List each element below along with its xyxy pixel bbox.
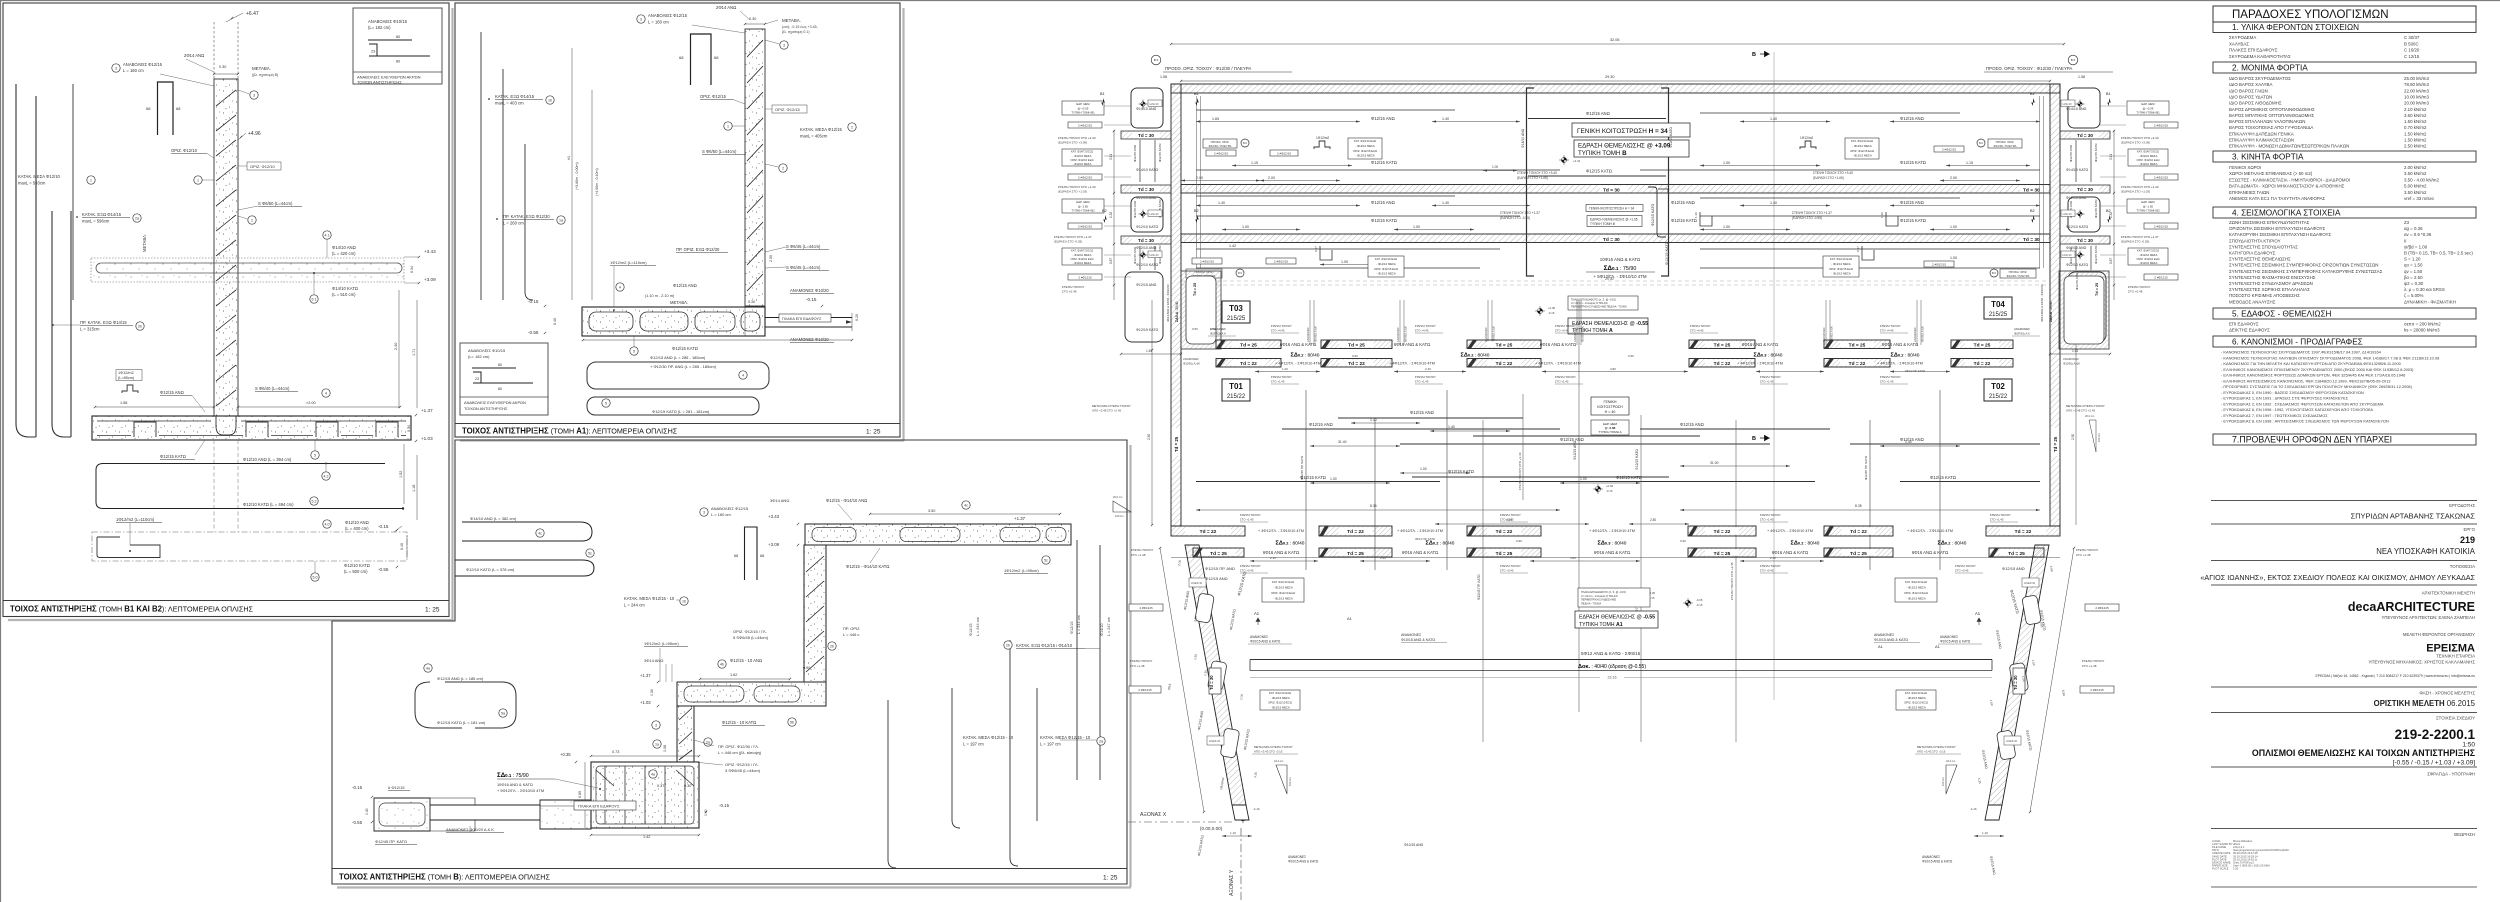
svg-text:ΣΤΟ +4.45: ΣΤΟ +4.45 [1555,329,1569,333]
svg-text:4c: 4c [964,503,968,507]
svg-text:ΚΑΤ. Φ12/10 ΕΞΩ: ΚΑΤ. Φ12/10 ΕΞΩ [1830,257,1852,261]
svg-text:-4-16: -4-16 [1970,807,1977,811]
dims under bottom rows [1250,560,1318,562]
svg-text:0.87: 0.87 [2109,258,2113,264]
svg-text:L = 446 c: L = 446 c [843,632,859,637]
right diagonal wall [1988,545,2049,805]
svg-text:1Φ12/m2 (L=110cm): 1Φ12/m2 (L=110cm) [610,260,647,265]
svg-text:1.20: 1.20 [1282,367,1288,371]
left rebar U-bars [16,84,36,437]
section 4 seismic data [2213,207,2476,218]
svg-text:ΕΡΕΙΣΜΑ | Νάξου 16, 14562 -: ΕΡΕΙΣΜΑ | Νάξου 16, 14562 - Κηφισιά | Τ … [2315,674,2475,678]
svg-text:ΣΤΕΨΗ ΤΟΙΧΟΥ: ΣΤΕΨΗ ΤΟΙΧΟΥ [1555,324,1576,328]
panel drop shadow bottom [8,619,453,621]
svg-text:Td = 25: Td = 25 [2095,283,2099,296]
svg-text:+1.03: +1.03 [421,436,433,441]
svg-text:ΣΥΝΤΕΛΕΣΤΗΣ ΣΕΙΣΜΙΚΗΣ ΣΥΜΠΕΡΙΦ: ΣΥΝΤΕΛΕΣΤΗΣ ΣΕΙΣΜΙΚΗΣ ΣΥΜΠΕΡΙΦΟΡΑΣ ΟΡΙΖΟ… [2229,263,2378,268]
centre slab note box lower [1578,588,1650,607]
svg-text:ΕΔΡΑΣΗ ΘΕΜΕΛΙΩΣΗΣ @ -0.55: ΕΔΡΑΣΗ ΘΕΜΕΛΙΩΣΗΣ @ -0.55 [1572,321,1648,327]
svg-text:ΥΠΕΥΘΥΝΟΣ ΜΗΧΑΝΙΚΟΣ: ΧΡΗΣΤΟΣ Κ: ΥΠΕΥΘΥΝΟΣ ΜΗΧΑΝΙΚΟΣ: ΧΡΗΣΤΟΣ ΚΑΚΛΑΜΑΝΗΣ [2368,660,2475,665]
svg-text:Td = 22: Td = 22 [1849,361,1866,367]
svg-text:(L = 500 cm): (L = 500 cm) [344,569,368,574]
svg-text:(L = 400 cm): (L = 400 cm) [345,526,369,531]
interior long verticals [1482,420,1484,742]
svg-text:1.00: 1.00 [1580,477,1587,481]
svg-text:(L = 510 cm): (L = 510 cm) [332,292,356,297]
svg-text:20.0 cm: 20.0 cm [1113,495,1122,499]
svg-text:B.6: B.6 [1992,271,1996,275]
svg-text:4.0: 4.0 [325,522,330,526]
svg-text:- Φ12/10 ΜΕΣΑ: - Φ12/10 ΜΕΣΑ [2139,154,2158,158]
left diagonal dims and labels [1160,548,1204,812]
svg-text:+3.09: +3.09 [424,277,436,282]
Td25 rotated labels on wall bands [1172,428,1181,456]
svg-text:+1.03: +1.03 [640,700,651,705]
svg-text:ΑΝΑΜΟΝΕΣ Φ10/20: ΑΝΑΜΟΝΕΣ Φ10/20 [790,337,829,342]
svg-text:(0.00,0.00): (0.00,0.00) [1200,826,1223,831]
svg-text:20.00 kN/m3: 20.00 kN/m3 [2404,101,2429,106]
svg-text:ΑΝΑΜΟΝΕΣ: ΑΝΑΜΟΝΕΣ [1306,327,1310,342]
svg-text:2.80: 2.80 [1650,518,1656,522]
svg-text:ΟΡΙΖ. Φ12/10 ΕΞΩ: ΟΡΙΖ. Φ12/10 ΕΞΩ [1268,701,1292,705]
svg-text:8.35: 8.35 [1370,504,1377,508]
svg-text:Φ12/15 ΚΑΤΩ: Φ12/15 ΚΑΤΩ [2094,143,2098,162]
svg-text:- Φ12/10 ΜΕΣΑ: - Φ12/10 ΜΕΣΑ [1376,262,1396,266]
svg-text:ΙΔΙΟ ΒΑΡΟΣ ΧΑΛΥΒΑ: ΙΔΙΟ ΒΑΡΟΣ ΧΑΛΥΒΑ [2229,82,2272,87]
svg-text:B.6: B.6 [1154,58,1159,62]
svg-text:ΣΤΕΨΗ ΤΟΙΧΟΥ: ΣΤΕΨΗ ΤΟΙΧΟΥ [1555,375,1576,379]
svg-text:ΚΑΤΑΚ. ΜΕΣΑ Φ12/15 - 10: ΚΑΤΑΚ. ΜΕΣΑ Φ12/15 - 10 [624,596,675,601]
svg-text:6Φ16 ΑΝΩ & ΚΑΤΩ: 6Φ16 ΑΝΩ & ΚΑΤΩ [1540,342,1576,347]
svg-text:2.40: 2.40 [1425,367,1431,371]
svg-text:ΗΛΕ.30: ΗΛΕ.30 [2063,102,2072,106]
svg-text:- Φ12/15 ΜΕΣΑ: - Φ12/15 ΜΕΣΑ [1273,585,1293,589]
svg-text:ΣΥΝΤΕΛΕΣΤΗΣ ΦΑΣΜΑΤΙΚΗΣ ΕΝΙΣΧΥΣ: ΣΥΝΤΕΛΕΣΤΗΣ ΦΑΣΜΑΤΙΚΗΣ ΕΝΙΣΧΥΣΗΣ [2229,275,2316,280]
svg-text:ΠΕΔΙΛΑ - ΤΟΙΧΙΑ: ΠΕΔΙΛΑ - ΤΟΙΧΙΑ [1581,601,1601,605]
svg-text:ks = 20000 kN/m3: ks = 20000 kN/m3 [2404,328,2440,333]
section 3 live loads [2213,151,2476,162]
plan left wall band [1171,84,1181,526]
svg-text:Td = 22: Td = 22 [1348,361,1365,367]
svg-text:ΕΔΡ. ΘΕΜ: ΕΔΡ. ΘΕΜ [2141,102,2155,106]
svg-text:S Φ6/50 (L=44cm): S Φ6/50 (L=44cm) [702,149,737,154]
svg-text:2.00: 2.00 [1268,176,1275,180]
svg-text:-0.15: -0.15 [1696,603,1703,607]
svg-text:- Φ12/15 ΜΕΣΑ: - Φ12/15 ΜΕΣΑ [1273,597,1293,601]
label Φ12/15 ΑΝΩ + ΜΕΤΑΒΛ [616,283,624,291]
svg-text:ΣΤΕΨΗ ΤΟΙΧΟΥ: ΣΤΕΨΗ ΤΟΙΧΟΥ [1131,548,1153,552]
svg-text:2b: 2b [138,324,142,328]
svg-text:80: 80 [396,35,400,39]
svg-text:6Φ16 ΑΝΩ & ΚΑΤΩ: 6Φ16 ΑΝΩ & ΚΑΤΩ [1394,342,1430,347]
svg-text:ΚΑΤΑΚ. ΕΞΩ Φ14/15: ΚΑΤΑΚ. ΕΞΩ Φ14/15 [495,94,535,99]
svg-text:S Φ6/40 (L=44cm): S Φ6/40 (L=44cm) [255,386,290,391]
svg-text:ΒΑΡΟΣ ΜΠΑΤΙΚΗΣ ΟΠΤΟΠΛΙΝΘΟΔΟΜΗΣ: ΒΑΡΟΣ ΜΠΑΤΙΚΗΣ ΟΠΤΟΠΛΙΝΘΟΔΟΜΗΣ [2229,113,2314,118]
title block bottom border [2211,886,2477,888]
svg-text:+4.96: +4.96 [248,131,261,137]
svg-text:T03: T03 [1229,304,1243,313]
svg-text:1. ΥΛΙΚΑ ΦΕΡΟΝΤΩΝ ΣΤΟΙΧΕΙΩΝ: 1. ΥΛΙΚΑ ΦΕΡΟΝΤΩΝ ΣΤΟΙΧΕΙΩΝ [2232,23,2359,32]
svg-text:80: 80 [396,60,400,64]
svg-text:αv = 0.9 *0.36: αv = 0.9 *0.36 [2404,232,2432,237]
panel frame [455,3,900,437]
svg-text:1.58: 1.58 [120,401,127,405]
svg-text:+3.09: +3.09 [768,542,780,547]
svg-text:(cm): -0.15 έως +3.45,: (cm): -0.15 έως +3.45, [782,25,818,29]
svg-text:Td = 30: Td = 30 [2077,187,2093,192]
svg-text:2: 2 [782,166,784,170]
svg-text:3.60 kN/m2: 3.60 kN/m2 [2404,113,2427,118]
svg-text:4c: 4c [538,531,542,535]
detail box anchors free ends [353,8,442,84]
svg-text:ΟΡΙΖ. Φ12/10 ΕΞΩ: ΟΡΙΖ. Φ12/10 ΕΞΩ [2137,158,2160,162]
svg-text:0.30: 0.30 [219,65,226,69]
panel B marker 3 right [780,41,788,49]
svg-text:- Φ12/15 ΜΕΣΑ: - Φ12/15 ΜΕΣΑ [1831,272,1851,276]
svg-text:3: 3 [115,66,117,70]
svg-text:(ΕΔΡΑΣΗ ΣΤΟ +3.09): (ΕΔΡΑΣΗ ΣΤΟ +3.09) [2121,141,2150,145]
svg-text:ΣΥΝΤΕΛΕΣΤΕΣ ΧΩΡΙΚΗΣ ΕΠΑΛΛΗΛΙΑΣ: ΣΥΝΤΕΛΕΣΤΕΣ ΧΩΡΙΚΗΣ ΕΠΑΛΛΗΛΙΑΣ [2229,287,2310,292]
svg-text:B2: B2 [1102,209,1107,213]
svg-text:2a: 2a [135,216,139,220]
svg-text:6Φ16 ΑΝΩ & ΚΑΤΩ: 6Φ16 ΑΝΩ & ΚΑΤΩ [1742,342,1778,347]
svg-text:B.6: B.6 [1238,271,1242,275]
svg-text:ΠΡΟΣΘ. ΟΡΙΖ. ΤΟΙΧΟΥ : Φ12/30 /: ΠΡΟΣΘ. ΟΡΙΖ. ΤΟΙΧΟΥ : Φ12/30 / ΠΛΕΥΡΑ [1165,66,1251,71]
svg-text:5: 5 [314,453,316,457]
panel B footing body [582,307,765,336]
svg-text:ΑΝΑΜΟΝΕΣ: ΑΝΑΜΟΝΕΣ [2063,357,2079,361]
svg-text:1.50 kN/m2: 1.50 kN/m2 [2404,131,2427,136]
svg-text:-0.15: -0.15 [719,803,730,808]
svg-text:2 #Φ12/15: 2 #Φ12/15 [2154,224,2168,228]
wall B1 hatched section [214,79,238,416]
svg-text:ΑΝΑΜΟΝΕΣ: ΑΝΑΜΟΝΕΣ [1573,327,1577,342]
svg-text:ΣΔ0.2 : 80/40: ΣΔ0.2 : 80/40 [1791,541,1820,547]
svg-text:maxL = 596cm: maxL = 596cm [82,219,110,224]
svg-text:ΣΔ0.3 : 80/40: ΣΔ0.3 : 80/40 [1754,353,1783,359]
svg-text:215/22: 215/22 [1989,394,2008,400]
svg-text:68: 68 [734,554,738,558]
svg-text:ΑΠΟ +3.48 ΣΤΟ +2.45: ΑΠΟ +3.48 ΣΤΟ +2.45 [1092,409,1121,413]
left diagonal wall [1185,545,1246,805]
svg-text:B.6: B.6 [1243,141,1247,145]
svg-text:ΑΝΑΜΟΝΕΣ: ΑΝΑΜΟΝΕΣ [1396,327,1400,342]
svg-text:ΟΡΙΖ. Φ12/15 / ΓΛ.: ΟΡΙΖ. Φ12/15 / ΓΛ. [733,629,767,634]
svg-text:- Φ12/15 ΜΕΣΑ: - Φ12/15 ΜΕΣΑ [1906,696,1926,700]
wall top dashed extension [213,22,215,79]
svg-text:2.40: 2.40 [1770,556,1776,560]
svg-text:ΚΑΤ. Φ12/10 ΕΞΩ: ΚΑΤ. Φ12/10 ΕΞΩ [1375,257,1397,261]
svg-text:-4-16: -4-16 [1253,807,1260,811]
svg-text:4.2: 4.2 [324,474,329,478]
svg-text:6. ΚΑΝΟΝΙΣΜΟΙ - ΠΡΟΔΙΑΓΡΑΦΕΣ: 6. ΚΑΝΟΝΙΣΜΟΙ - ΠΡΟΔΙΑΓΡΑΦΕΣ [2232,337,2363,346]
svg-text:L = 244 cm: L = 244 cm [976,617,980,636]
svg-text:ΤΥΠΙΚΗ ΤΟΜΗ Β2: ΤΥΠΙΚΗ ΤΟΜΗ Β2 [1071,209,1095,213]
svg-text:Φ12/15 ΑΝΩ: Φ12/15 ΑΝΩ [1133,246,1137,264]
svg-text:Td = 22: Td = 22 [1714,529,1731,535]
diagonal end caps [1232,805,1249,820]
section 2 permanent loads [2213,62,2476,73]
svg-text:ΣΤΟΙΧΕΙΑ ΣΧΕΔΙΟΥ: ΣΤΟΙΧΕΙΑ ΣΧΕΔΙΟΥ [2436,716,2475,721]
svg-text:- Φ12/15 ΜΕΣΑ: - Φ12/15 ΜΕΣΑ [1376,272,1396,276]
svg-text:Φ12/10 ΚΑΤΩ: Φ12/10 ΚΑΤΩ [1136,263,1159,267]
svg-text:Φ14/10 ΑΝΩ: Φ14/10 ΑΝΩ [1136,107,1157,111]
svg-text:ΠΡ. ΟΡΙΖ. ΕΞΩ Φ12/30: ΠΡ. ΟΡΙΖ. ΕΞΩ Φ12/30 [676,247,720,252]
svg-text:- ΕΥΡΩΚΩΔΙΚΑΣ 2, EN 1992 : ΣΧ: - ΕΥΡΩΚΩΔΙΚΑΣ 2, EN 1992 : ΣΧΕΔΙΑΣΜΟΣ ΦΕ… [2221,401,2384,406]
svg-text:ΟΡΙΖ. Φ12/10 ΕΞΩ: ΟΡΙΖ. Φ12/10 ΕΞΩ [1271,591,1295,595]
svg-text:ΣΤΟ +1.48: ΣΤΟ +1.48 [2076,553,2091,557]
svg-text:0.70: 0.70 [1210,327,1216,331]
svg-text:ΟΡΙΖ. Φ12/10: ΟΡΙΖ. Φ12/10 [250,164,276,169]
svg-text:Φ12/10 ΑΝΩ: Φ12/10 ΑΝΩ [1136,246,1157,250]
svg-text:2.00: 2.00 [1196,176,1203,180]
svg-text:-0.15: -0.15 [378,524,389,529]
svg-text:Td = 30: Td = 30 [2077,238,2093,243]
svg-text:1: 1 [197,178,199,182]
svg-text:4Φ14 ΑΝΩ & ΚΑΤΩ - ΣΦ10/10: 4Φ14 ΑΝΩ & ΚΑΤΩ - ΣΦ10/10 [2040,284,2044,322]
svg-text:ΕΔΡΑΣΗ ΘΕΜΕΛΙΩΣΗΣ @ +3.09: ΕΔΡΑΣΗ ΘΕΜΕΛΙΩΣΗΣ @ +3.09 [1578,143,1671,150]
svg-text:B.6: B.6 [2071,58,2076,62]
svg-text:+0.35: +0.35 [560,752,571,757]
svg-text:Φ12/10 ΚΑΤΩ (L = 494 cm): Φ12/10 ΚΑΤΩ (L = 494 cm) [243,502,294,507]
svg-text:ΚΑΤ. Φ14/Τ.5 ΕΞΩ: ΚΑΤ. Φ14/Τ.5 ΕΞΩ [1071,249,1093,253]
svg-text:Td = 25: Td = 25 [1496,551,1513,557]
svg-text:Td = 25: Td = 25 [1210,551,1227,557]
svg-text:6Φ16 ΑΝΩ & ΚΑΤΩ: 6Φ16 ΑΝΩ & ΚΑΤΩ [1280,342,1316,347]
svg-text:2 #Φ12/15: 2 #Φ12/15 [1078,123,1092,127]
svg-text:+ 4Φ12/ΓΛ. - ΣΦ10/10 4ΤΜ: + 4Φ12/ΓΛ. - ΣΦ10/10 4ΤΜ [1275,362,1321,366]
svg-text:ΚΑΤΗΓΟΡΙΑ ΕΔΑΦΟΥΣ: ΚΑΤΗΓΟΡΙΑ ΕΔΑΦΟΥΣ [2229,251,2276,256]
svg-text:ΑΠΟ +3.43 ΣΤΟ -0.15: ΑΠΟ +3.43 ΣΤΟ -0.15 [1917,750,1946,754]
svg-text:ΗΛΕ.30: ΗΛΕ.30 [1150,212,1159,216]
svg-text:10Φ16 ΑΝΩ & ΚΑΤΩ: 10Φ16 ΑΝΩ & ΚΑΤΩ [1600,257,1641,262]
svg-text:1.00: 1.00 [1330,477,1337,481]
svg-text:ΣΤΟ +1.48: ΣΤΟ +1.48 [2082,664,2097,668]
small step hooks near strips [1700,212,1712,226]
svg-text:2 #Φ12/15: 2 #Φ12/15 [1932,262,1946,266]
dashed separator 29.30 lower [1181,280,2050,282]
svg-text:Td = 22: Td = 22 [1714,361,1731,367]
svg-text:Td = 30: Td = 30 [1209,675,1214,690]
svg-text:ΙΔΙΟ ΒΑΡΟΣ ΣΚΥΡΟΔΕΜΑΤΟΣ: ΙΔΙΟ ΒΑΡΟΣ ΣΚΥΡΟΔΕΜΑΤΟΣ [2229,76,2291,81]
svg-text:Φ14/10 ΚΑΤΩ: Φ14/10 ΚΑΤΩ [1136,168,1159,172]
svg-text:ΤΥΠΙΚΗ ΤΟΜΗ Β: ΤΥΠΙΚΗ ΤΟΜΗ Β [1590,222,1615,226]
svg-text:5Φ12 ΑΝΩ & ΚΑΤΩ - ΣΦ8/15: 5Φ12 ΑΝΩ & ΚΑΤΩ - ΣΦ8/15 [1581,651,1641,656]
svg-text:Td = 25: Td = 25 [1193,283,1197,296]
svg-text:ΠΛΑΚΕΣ ΕΠΙ ΕΔΑΦΟΥΣ: ΠΛΑΚΕΣ ΕΠΙ ΕΔΑΦΟΥΣ [2229,48,2278,53]
svg-text:ΑΞΟΝΑΣ Y: ΑΞΟΝΑΣ Y [1229,869,1235,896]
svg-text:Td = 30: Td = 30 [1603,187,1620,193]
svg-text:Td = 30: Td = 30 [2013,675,2018,690]
svg-text:1.00: 1.00 [1413,225,1420,229]
svg-text:ΣΤΟ +1.45: ΣΤΟ +1.45 [1500,518,1514,522]
svg-text:ΜΕΤΑΛΛΙΚΗ ΣΤΕΨΗ ΤΟΙΧΟΥ: ΜΕΤΑΛΛΙΚΗ ΣΤΕΨΗ ΤΟΙΧΟΥ [2066,404,2105,408]
svg-text:ΟΡΙΖ. Φ12/15: ΟΡΙΖ. Φ12/15 [700,94,727,99]
svg-text:ΣΤΕΨΗ ΤΟΙΧΟΥ ΣΤΟ +1.43: ΣΤΕΨΗ ΤΟΙΧΟΥ ΣΤΟ +1.43 [1058,185,1096,189]
svg-text:ΤΕΧΝΙΚΗ ΕΤΑΙΡΕΙΑ: ΤΕΧΝΙΚΗ ΕΤΑΙΡΕΙΑ [2436,654,2475,659]
svg-text:2 #Φ1215: 2 #Φ1215 [2095,606,2109,610]
svg-text:ΣΤΟ +1.48: ΣΤΟ +1.48 [1131,553,1146,557]
panel C footing block 75/90 [591,762,699,828]
svg-text:1.65: 1.65 [1212,117,1219,121]
svg-text:0.73: 0.73 [612,750,619,754]
svg-text:5: 5 [605,401,607,405]
svg-text:- Φ12/10 ΜΕΣΑ: - Φ12/10 ΜΕΣΑ [1073,162,1092,166]
svg-text:Φ12/15 ΚΑΤΩ (L = 281 - 181cm): Φ12/15 ΚΑΤΩ (L = 281 - 181cm) [652,409,710,414]
svg-text:ΓΕΝΙΚΗ: ΓΕΝΙΚΗ [1604,400,1617,404]
svg-text:(+3.60m - 0.00m): (+3.60m - 0.00m) [575,162,579,190]
svg-text:(L= 182 cm): (L= 182 cm) [468,354,490,359]
svg-text:Td = 30: Td = 30 [1138,133,1154,138]
svg-text:0.50: 0.50 [1192,327,1198,331]
svg-text:-0.15: -0.15 [1606,489,1613,493]
svg-text:6Φ16 ΑΝΩ & ΚΑΤΩ: 6Φ16 ΑΝΩ & ΚΑΤΩ [1263,550,1299,555]
svg-text:ΣΤΕΨΗ ΤΟΙΧΟΥ: ΣΤΕΨΗ ΤΟΙΧΟΥ [2082,659,2104,663]
svg-text:4: 4 [619,285,621,289]
svg-text:ΑΞΟΝΑΣ X: ΑΞΟΝΑΣ X [1140,812,1167,818]
svg-text:2 #Φ12/15: 2 #Φ12/15 [1942,147,1956,151]
bottom dim 1.10 [1222,835,1252,837]
svg-text:+3.43: +3.43 [768,514,780,519]
svg-text:ΤΟΠΟΘΕΣΙΑ: ΤΟΠΟΘΕΣΙΑ [2450,564,2475,569]
svg-text:A1: A1 [1878,644,1884,649]
svg-text:B1: B1 [2106,92,2111,96]
svg-text:Φ12/15 ΚΑΤΩ: Φ12/15 ΚΑΤΩ [1900,160,1926,165]
svg-text:ΕΔΡ. ΘΕΜ: ΕΔΡ. ΘΕΜ [2141,200,2155,204]
svg-text:(ΕΔΡΑΣΗ ΣΤΟ +1.65): (ΕΔΡΑΣΗ ΣΤΟ +1.65) [1517,176,1548,180]
svg-text:ΣΤΕΨΗ ΤΟΙΧΟΥ: ΣΤΕΨΗ ΤΟΙΧΟΥ [1500,564,1521,568]
svg-text:ΟΡΙΖ. Φ12/15: ΟΡΙΖ. Φ12/15 [775,107,801,112]
panel C anchors label right [700,508,708,516]
svg-text:1.63: 1.63 [2072,349,2078,353]
svg-text:ΤΟΙΧΟΣ ΑΝΤΙΣΤΗΡΙΞΗΣ (ΤΟΜΗ B):: ΤΟΙΧΟΣ ΑΝΤΙΣΤΗΡΙΞΗΣ (ΤΟΜΗ B): ΛΕΠΤΟΜΕΡΕΙ… [339,873,550,882]
svg-text:ΦΩΡ/ΕΔ.Α.Κ: ΦΩΡ/ΕΔ.Α.Κ [1210,332,1226,336]
centre boxes ΓΕΝΙΚΗ Η40 [1591,397,1629,415]
svg-text:ΚΑΤΑΚ. ΕΞΩ Φ14/15: ΚΑΤΑΚ. ΕΞΩ Φ14/15 [82,212,122,217]
svg-text:Φ12/10 ΑΝΩ: Φ12/10 ΑΝΩ [2066,196,2087,200]
svg-text:Φ12/10 ΑΝΩ: Φ12/10 ΑΝΩ [1136,196,1157,200]
top zone label boxes left [1203,139,1237,148]
svg-text:100 cm: 100 cm [1941,777,1945,786]
svg-text:0.37: 0.37 [657,784,664,788]
svg-text:-0.05: -0.05 [1696,598,1703,602]
svg-text:- ΕΥΡΩΚΩΔΙΚΑΣ 1, EN 1991 : ΔΡ: - ΕΥΡΩΚΩΔΙΚΑΣ 1, EN 1991 : ΔΡΑΣΕΙΣ ΣΤΙΣ … [2221,396,2349,401]
svg-text:Φ12/10 ΑΝΩ: Φ12/10 ΑΝΩ [345,520,369,525]
svg-text:2 #Φ12/15: 2 #Φ12/15 [1277,151,1291,155]
axis origin [1240,815,1246,821]
svg-text:ΣΔ0.2 : 80/40: ΣΔ0.2 : 80/40 [1461,353,1490,359]
svg-text:(+4.00m - 0.40m): (+4.00m - 0.40m) [595,168,599,196]
svg-text:ΒΑΡΟΣ ΕΠΑΛΛΗΛΩΝ ΥΑΛΟΠΙΝΑΚΩΝ: ΒΑΡΟΣ ΕΠΑΛΛΗΛΩΝ ΥΑΛΟΠΙΝΑΚΩΝ [2229,119,2305,124]
svg-text:2 #Φ12/15: 2 #Φ12/15 [1214,151,1228,155]
margin slope triangles upper [1113,501,1131,512]
svg-text:+3.43: +3.43 [1573,159,1581,163]
svg-text:ΣΚΥΡΟΔΕΜΑ ΚΑΘΑΡΙΟΤΗΤΑΣ: ΣΚΥΡΟΔΕΜΑ ΚΑΘΑΡΙΟΤΗΤΑΣ [2229,54,2291,59]
svg-text:ΕΡΓΟ: ΕΡΓΟ [2464,527,2476,532]
margin mini symbol boxes and fans [1141,102,1145,106]
svg-text:Φ12/15 ΑΝΩ: Φ12/15 ΑΝΩ [2002,566,2025,571]
centre box ΕΔΡΑΣΗ ΘΕΜΕΛΙΩΣΗΣ +3.09 [1574,140,1689,157]
svg-text:- ΕΥΡΩΚΩΔΙΚΑΣ 6, EN 1996 : 199: - ΕΥΡΩΚΩΔΙΚΑΣ 6, EN 1996 : 1992, ΥΠΟΛΟΓΙ… [2221,407,2373,412]
svg-text:3: 3 [640,17,642,21]
bottom footing row Td22 [1319,526,1392,536]
svg-text:1.58: 1.58 [1160,75,1167,79]
svg-text:3Φ14 ΑΝΩ: 3Φ14 ΑΝΩ [770,498,789,503]
svg-text:ΜΕΛΕΤΗ ΦΕΡΟΝΤΟΣ ΟΡΓΑΝΙΣΜΟΥ: ΜΕΛΕΤΗ ΦΕΡΟΝΤΟΣ ΟΡΓΑΝΙΣΜΟΥ [2403,632,2475,637]
svg-text:ΟΡΙΖΟΝΤΙΑ ΣΕΙΣΜΙΚΗ ΕΠΙΤΑΧΥΝΣΗ: ΟΡΙΖΟΝΤΙΑ ΣΕΙΣΜΙΚΗ ΕΠΙΤΑΧΥΝΣΗ ΕΔΑΦΟΥΣ [2229,226,2326,231]
svg-text:ΣΤΕΨΗ ΤΟΙΧΟΥ: ΣΤΕΨΗ ΤΟΙΧΟΥ [1760,375,1781,379]
svg-text:Φ14/10 ΚΑΤΩ: Φ14/10 ΚΑΤΩ [332,286,358,291]
svg-text:S Φ6/45 (L=44cm): S Φ6/45 (L=44cm) [786,265,821,270]
svg-text:10.00 kN/m3: 10.00 kN/m3 [2404,94,2429,99]
svg-text:8.35: 8.35 [1855,504,1862,508]
svg-text:ΧΑΛΥΒΑΣ: ΧΑΛΥΒΑΣ [2229,41,2249,46]
svg-text:Φ14/10 ΑΝΩ: Φ14/10 ΑΝΩ [1521,128,1525,148]
svg-text:B2: B2 [2030,209,2035,213]
svg-text:ΣΤΕΨΗ ΤΟΙΧΟΥ: ΣΤΕΨΗ ΤΟΙΧΟΥ [1500,513,1521,517]
svg-text:ΑΝΑΜΟΝΕΣ: ΑΝΑΜΟΝΕΣ [1250,635,1268,639]
T02 label box [1984,379,2012,401]
svg-text:3Φ14 ΠΡ. ΚΑΤΩ: 3Φ14 ΠΡ. ΚΑΤΩ [1415,537,1435,541]
svg-text:ΚΑΤ. Φ14/10 ΕΞΩ: ΚΑΤ. Φ14/10 ΕΞΩ [1851,139,1873,143]
svg-text:1.40: 1.40 [1448,425,1455,429]
svg-text:Φ12/15 ΚΑΤΩ: Φ12/15 ΚΑΤΩ [1635,449,1639,470]
svg-text:Φ12/45 ΠΡ. ΚΑΤΩ: Φ12/45 ΠΡ. ΚΑΤΩ [1864,455,1868,480]
svg-text:Φ12/15 ΑΝΩ: Φ12/15 ΑΝΩ [1560,437,1584,442]
svg-text:1.00: 1.00 [1492,165,1498,169]
svg-text:maxL = 593cm: maxL = 593cm [18,181,46,186]
svg-text:ΗΛΕΦ.40: ΗΛΕΦ.40 [1191,581,1203,585]
svg-text:100 cm: 100 cm [2097,433,2101,442]
svg-text:1.10: 1.10 [1982,831,1988,835]
svg-text:68: 68 [176,106,181,111]
svg-text:Td = 30: Td = 30 [1138,238,1154,243]
svg-text:S Φ6/45 (L=44cm): S Φ6/45 (L=44cm) [786,244,821,249]
svg-text:Φ10/15 ΑΝΩ & ΚΑΤΩ: Φ10/15 ΑΝΩ & ΚΑΤΩ [1874,638,1908,642]
svg-text:Φ14/10 ΑΝΩ: Φ14/10 ΑΝΩ [2066,107,2087,111]
svg-text:ΑΝΑΜΟΝΕΣ: ΑΝΑΜΟΝΕΣ [1940,635,1958,639]
svg-text:(ΕΔΡΑΣΗ ΣΤΟ +3.09): (ΕΔΡΑΣΗ ΣΤΟ +3.09) [1058,141,1087,145]
svg-text:B (TB= 0.15, TB= 0.5, TB= 2.5: B (TB= 0.15, TB= 0.5, TB= 2.5 sec) [2404,251,2473,256]
page top border [0,0,2500,2]
Z-bar hooks between strips [1648,187,1666,237]
label Φ12/10 ΑΝΩ L400 [323,520,331,528]
svg-text:ΠΛΑΚΑ ΕΠΙ ΕΔΑΦΟΥΣ (π. Σ. @ -0: ΠΛΑΚΑ ΕΠΙ ΕΔΑΦΟΥΣ (π. Σ. @ -0.15) [1581,590,1626,594]
svg-text:0.40: 0.40 [400,543,404,550]
left margin Td30 hatched stubs [1121,131,1171,139]
info separator lines [2211,500,2477,502]
svg-text:Φ10/ΕΔ.Α.&Κ: Φ10/ΕΔ.Α.&Κ [1404,326,1408,342]
rebar loop outline 1 [587,362,769,389]
svg-text:Φ12/15 ΚΑΤΩ: Φ12/15 ΚΑΤΩ [160,454,186,459]
svg-text:C 16/20: C 16/20 [2404,48,2420,53]
svg-text:2. ΜΟΝΙΜΑ ΦΟΡΤΙΑ: 2. ΜΟΝΙΜΑ ΦΟΡΤΙΑ [2232,63,2308,72]
svg-text:ΣΤΟ +1.45: ΣΤΟ +1.45 [1880,380,1894,384]
svg-text:ΟΡΙΖ. Φ12/10 ΕΞΩ: ΟΡΙΖ. Φ12/10 ΕΞΩ [1904,701,1928,705]
svg-text:ΣΤΕΨΗ ΤΟΙΧΟΥ: ΣΤΕΨΗ ΤΟΙΧΟΥ [1955,564,1976,568]
svg-text:0.70 kN/m2: 0.70 kN/m2 [2404,125,2427,130]
svg-text:ΣΤΕΨΗ ΤΟΙΧΟΥ: ΣΤΕΨΗ ΤΟΙΧΟΥ [2076,548,2098,552]
svg-text:maxL = 405cm: maxL = 405cm [800,134,828,139]
svg-text:3.21: 3.21 [1109,154,1113,160]
svg-text:5 SΦ6/45 (L=44cm): 5 SΦ6/45 (L=44cm) [733,635,769,640]
svg-text:>2.00: >2.00 [306,401,316,405]
svg-text:ΓΕΝΙΚΗ ΚΟΙΤΟΣΤΡΩΣΗ Η = 34: ΓΕΝΙΚΗ ΚΟΙΤΟΣΤΡΩΣΗ Η = 34 [1577,128,1668,135]
svg-text:L = 446 cm (βλ. κάτοψη): L = 446 cm (βλ. κάτοψη) [718,750,762,755]
svg-text:Φ12/15 ΚΑΤΩ: Φ12/15 ΚΑΤΩ [2094,199,2098,218]
svg-text:(ΕΔΡΑΣΗ ΣΤΟ +1.03): (ΕΔΡΑΣΗ ΣΤΟ +1.03) [2121,190,2150,194]
svg-text:ΣΤΟ +0.48: ΣΤΟ +0.48 [1062,290,1077,294]
